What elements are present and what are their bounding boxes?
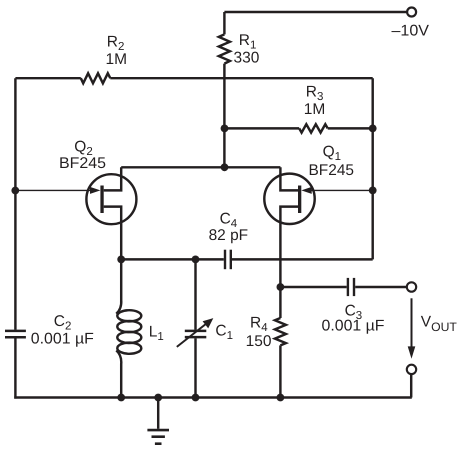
ground [147,398,169,444]
node dot R3 right [369,124,377,132]
wire [355,286,406,288]
capacitor C3 [348,278,354,296]
node dot C1 top [192,256,200,264]
wire left rail [14,78,16,330]
svg-text:1M: 1M [304,101,326,118]
resistor R2 [81,73,111,83]
node dot Q2 source [117,256,125,264]
wire R2 rail y=78 [15,77,80,79]
transistor Q2 [86,167,136,259]
svg-text:330: 330 [234,49,260,66]
wire [232,258,373,260]
node dot drain bus [221,163,229,171]
wire [410,374,412,397]
node dot Q2 gate [11,187,19,195]
transistor Q1 channel bar [298,186,301,214]
wire Q2 gate [15,189,95,191]
node dot R4 bottom [277,394,285,402]
wire R3 rail y=127.8 [224,127,299,129]
wire drain bus [121,166,280,168]
Vout arrow [411,298,413,347]
wire [14,338,16,398]
wire top supply rail [224,11,407,13]
terminal Vout top [407,282,416,291]
terminal -10V [407,8,416,17]
inductor L1 [116,259,141,397]
svg-text:BF245: BF245 [59,155,106,172]
svg-text:–10V: –10V [392,22,430,39]
node dot R3 left [221,124,229,132]
transistor Q2 gate arrowhead [90,187,100,194]
resistor R1 [219,12,230,128]
wire Q1 gate [307,189,373,191]
svg-text:1M: 1M [106,51,128,68]
wire [110,77,372,79]
node dot C3 tap [277,283,285,291]
transistor Q1 gate arrowhead [301,187,311,194]
svg-text:BF245: BF245 [309,162,355,179]
transistor Q2 channel bar [100,186,103,214]
capacitor C1 variable [177,259,207,397]
svg-text:0.001 µF: 0.001 µF [31,330,94,347]
svg-text:0.001 µF: 0.001 µF [322,318,385,335]
wire bottom rail [14,396,412,398]
wire C3 branch [280,286,346,288]
C1 arrowhead [203,318,214,328]
svg-text:150: 150 [246,333,272,350]
node dot ground [154,394,162,402]
terminal Vout bottom [407,365,416,374]
Vout arrowhead [408,346,416,358]
resistor R4 [275,318,286,398]
capacitor C2 [5,331,26,337]
svg-text:82 pF: 82 pF [209,227,249,244]
node dot L1 bottom [117,394,125,402]
wire right rail [371,78,373,259]
transistor Q1 [264,167,314,318]
wire R1 bottom to drain bus [223,128,225,167]
node dot Q1 gate [369,187,377,195]
node dot C1 bottom [192,394,200,402]
resistor R3 [299,124,328,132]
wire [328,127,373,129]
wire C4 rail y=259 [121,258,224,260]
capacitor C4 [225,250,231,270]
